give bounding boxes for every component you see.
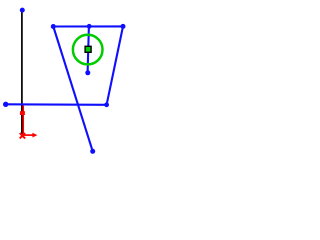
- red horizontal vector shaft: [23, 134, 33, 136]
- red vertical vector shaft: [22, 106, 24, 136]
- axis line (black vertical): [21, 10, 23, 137]
- red square point marker: [20, 111, 25, 115]
- wire: blue horizontal line: [6, 103, 107, 106]
- node: point at top of axis: [20, 8, 25, 13]
- wire: vertical segment through circle: [88, 26, 89, 72]
- node: left end of horizontal line: [3, 102, 8, 107]
- red right arrowhead: [32, 133, 37, 138]
- node: point below circle: [85, 70, 90, 75]
- square handle (green with black border) at circle centre: [85, 46, 91, 52]
- node: right end of horizontal line / bottom-right corner: [104, 102, 109, 107]
- red origin cross marker: [20, 133, 25, 138]
- wire: long left diagonal line: [53, 27, 92, 152]
- node: top middle point: [87, 24, 92, 29]
- node: bottom end of diagonal: [90, 149, 95, 154]
- node: top-left corner: [51, 24, 56, 29]
- circle (green): [73, 35, 103, 65]
- wire: right edge of quadrilateral: [107, 26, 123, 104]
- wire: top edge of quadrilateral: [53, 25, 123, 27]
- node: top-right corner: [121, 24, 126, 29]
